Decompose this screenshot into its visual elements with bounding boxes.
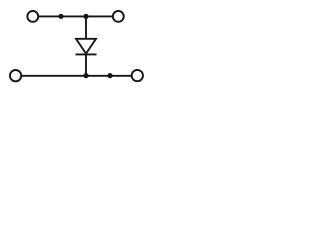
wire (diode anode lead, vertical) xyxy=(85,16,87,39)
junction (bottom rail right) xyxy=(107,73,112,78)
junction (top rail left) xyxy=(58,14,63,19)
junction (bottom rail, diode tap) xyxy=(83,73,88,78)
terminal 3 (bottom left, open circle) xyxy=(10,70,21,81)
junction (top rail, diode tap) xyxy=(83,14,88,19)
diode D1 (cathode down) xyxy=(76,39,97,55)
terminal 2 (top right, open circle) xyxy=(113,11,124,22)
wire (top rail) xyxy=(39,15,113,17)
terminal 1 (top left, open circle) xyxy=(27,11,38,22)
terminal 4 (bottom right, open circle) xyxy=(132,70,143,81)
wire (diode cathode lead, vertical) xyxy=(85,55,87,76)
wire (bottom rail) xyxy=(21,75,131,77)
